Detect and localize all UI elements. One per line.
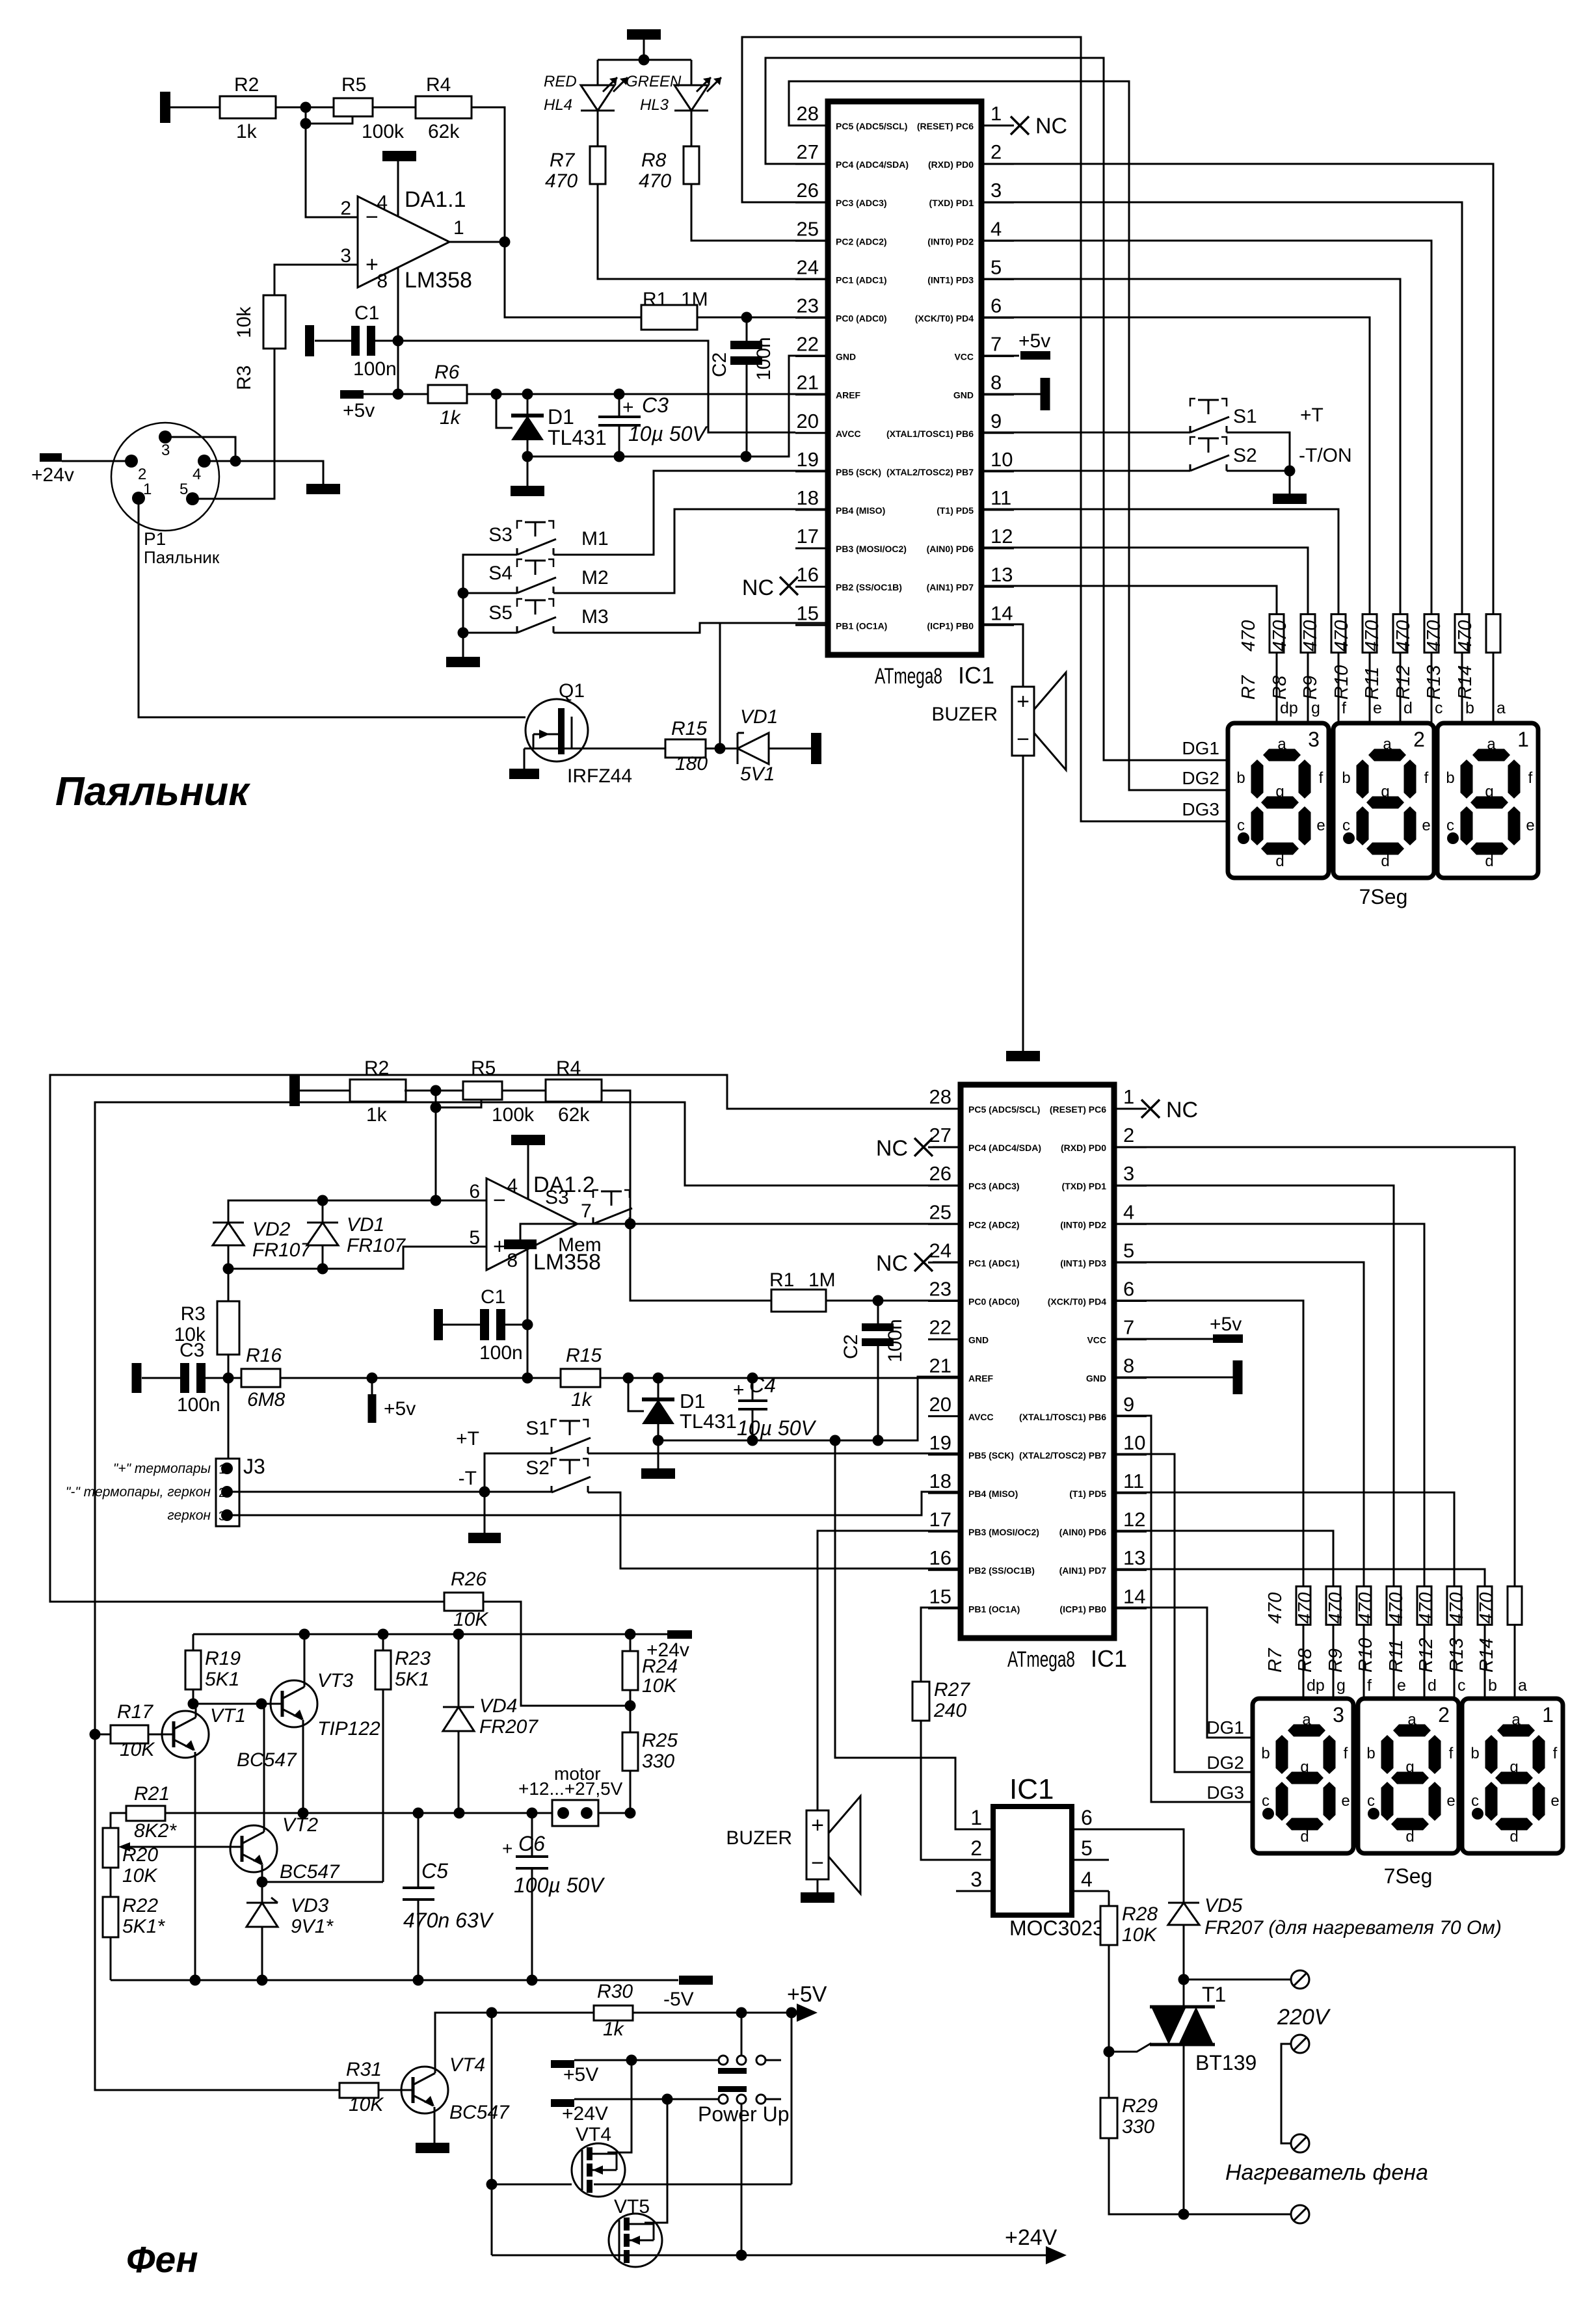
NC pin 1 (lower) — [1112, 1108, 1142, 1110]
svg-text:(ICP1) PB0: (ICP1) PB0 — [927, 620, 974, 631]
svg-text:R4: R4 — [556, 1057, 581, 1079]
resistor R31 10K — [339, 2083, 379, 2098]
svg-text:470: 470 — [1416, 1593, 1437, 1624]
svg-text:g: g — [1381, 783, 1389, 801]
wire VT3 collector to rail — [304, 1634, 306, 1687]
resistor R3 (lower) — [228, 1269, 230, 1301]
svg-text:470: 470 — [639, 170, 671, 192]
resistor R28 10K — [1100, 1906, 1117, 1945]
wire +24V to switch row2 — [574, 2099, 719, 2100]
svg-text:M2: M2 — [581, 567, 609, 589]
svg-text:VD4: VD4 — [479, 1695, 517, 1717]
7-segment display DG1 (top) — [1228, 723, 1329, 878]
svg-text:AVCC: AVCC — [836, 429, 861, 439]
resistor R2 (lower) — [350, 1079, 406, 1102]
+24v rail (lower left) — [193, 1634, 669, 1635]
wire buzzer to ground (lower) — [817, 1879, 819, 1892]
wire VT2 emitter to VD3/R23 — [261, 1865, 263, 1882]
IC1 ATmega8 (top) — [828, 101, 981, 655]
ground bar below buzzer (top) — [1006, 1051, 1040, 1061]
svg-text:(XTAL2/TOSC2) PB7: (XTAL2/TOSC2) PB7 — [886, 467, 974, 477]
svg-text:c: c — [1457, 1676, 1466, 1695]
svg-text:15: 15 — [929, 1585, 951, 1608]
svg-text:+: + — [502, 1838, 512, 1859]
svg-text:ATmega8: ATmega8 — [875, 664, 942, 689]
svg-text:b: b — [1465, 699, 1474, 717]
wire R9 to display (lower) — [1363, 1625, 1365, 1699]
svg-text:f: f — [1367, 1676, 1372, 1695]
svg-text:470: 470 — [1455, 620, 1476, 652]
svg-text:b: b — [1488, 1676, 1497, 1695]
svg-text:22: 22 — [797, 333, 819, 356]
wire D1 to ground bus — [527, 440, 529, 457]
svg-text:62k: 62k — [558, 1104, 590, 1126]
svg-text:3: 3 — [991, 179, 1002, 202]
resistor R11 470 (top segment) — [1393, 615, 1407, 653]
svg-text:1k: 1k — [603, 2019, 625, 2040]
svg-text:MOC3023: MOC3023 — [1009, 1916, 1104, 1940]
svg-text:PC1 (ADC1): PC1 (ADC1) — [968, 1258, 1020, 1268]
svg-text:4: 4 — [1081, 1868, 1093, 1891]
svg-text:470n 63V: 470n 63V — [403, 1909, 494, 1932]
svg-text:1k: 1k — [571, 1389, 593, 1410]
DA1.2 pin8 stem — [527, 1249, 529, 1378]
svg-text:d: d — [1485, 853, 1493, 870]
wire R3 to P1 pin 5 — [193, 349, 274, 499]
svg-text:11: 11 — [1123, 1470, 1144, 1492]
wire P1 pin 3 to node — [165, 437, 235, 461]
svg-text:28: 28 — [797, 102, 819, 125]
wire R30 to +5V arrow — [633, 2012, 811, 2014]
wire pin9 to S1 — [981, 432, 1190, 434]
svg-text:2: 2 — [219, 1486, 226, 1500]
wire R8 to pin 25 — [691, 184, 828, 241]
svg-text:10K: 10K — [1122, 1924, 1158, 1946]
svg-text:+24v: +24v — [31, 464, 74, 486]
trimmer R5 (top) — [334, 98, 373, 116]
wire pin13 to R13 (lower) — [1112, 1569, 1485, 1587]
svg-text:2: 2 — [991, 140, 1002, 163]
svg-text:18: 18 — [797, 486, 819, 509]
transistor Q1 IRFZ44 — [525, 699, 588, 761]
svg-text:7: 7 — [1123, 1316, 1134, 1339]
wire R11 to display — [1400, 653, 1402, 723]
svg-text:PC4 (ADC4/SDA): PC4 (ADC4/SDA) — [968, 1143, 1041, 1153]
svg-text:VCC: VCC — [954, 352, 974, 362]
svg-text:470: 470 — [1325, 1593, 1346, 1624]
svg-text:(T1) PD5: (T1) PD5 — [1069, 1489, 1106, 1499]
svg-text:4: 4 — [193, 466, 201, 483]
svg-text:C1: C1 — [481, 1286, 505, 1308]
wire pin4 to R11 (lower) — [1112, 1224, 1424, 1587]
svg-text:100µ 50V: 100µ 50V — [514, 1873, 605, 1897]
svg-text:D1: D1 — [548, 405, 574, 429]
svg-text:470: 470 — [1300, 620, 1321, 652]
svg-text:8: 8 — [991, 371, 1002, 394]
svg-text:7: 7 — [991, 333, 1002, 356]
svg-text:b: b — [1366, 1745, 1375, 1762]
svg-text:26: 26 — [797, 179, 819, 202]
svg-text:R6: R6 — [434, 362, 460, 383]
resistor R14 470 (lower segment) — [1508, 1587, 1522, 1625]
wire switches common to ground — [463, 555, 517, 657]
svg-text:R14: R14 — [1455, 665, 1476, 700]
svg-text:+5v: +5v — [1018, 330, 1050, 352]
svg-text:e: e — [1422, 817, 1430, 834]
svg-text:-T: -T — [459, 1468, 477, 1489]
svg-text:+: + — [622, 397, 634, 418]
wire diode bottoms to non-inverting input — [228, 1245, 230, 1269]
svg-text:12: 12 — [1123, 1508, 1145, 1531]
svg-text:R17: R17 — [117, 1701, 153, 1723]
resistor R4 (lower) — [546, 1079, 602, 1102]
svg-text:R29: R29 — [1122, 2095, 1158, 2117]
wire VT1 collector to R19 — [195, 1704, 197, 1717]
+5v stub (lower) — [371, 1378, 373, 1396]
svg-text:S2: S2 — [525, 1457, 550, 1479]
svg-text:f: f — [1344, 1745, 1348, 1762]
resistor R27 240 — [912, 1682, 929, 1721]
svg-text:BC547: BC547 — [449, 2102, 510, 2123]
wire — [300, 1090, 351, 1092]
svg-text:g: g — [1405, 1758, 1414, 1776]
zener VD1 5V1 — [737, 733, 739, 764]
svg-text:−: − — [493, 1188, 506, 1213]
svg-text:FR207: FR207 — [479, 1716, 539, 1738]
wire R1 to PC0 pin 23 — [826, 1300, 961, 1302]
wire pin12 to R8 — [981, 548, 1308, 615]
diode VD1 FR107 (lower) — [307, 1222, 338, 1224]
svg-text:2: 2 — [970, 1836, 982, 1860]
svg-text:M3: M3 — [581, 606, 609, 628]
resistor R7 470 (top segment) — [1270, 615, 1284, 653]
svg-text:d: d — [1275, 853, 1284, 870]
wire pin5 to R9 (lower) — [1112, 1262, 1364, 1587]
svg-text:R5: R5 — [471, 1057, 496, 1079]
svg-text:-5V: -5V — [663, 1989, 694, 2010]
svg-text:5: 5 — [1123, 1239, 1134, 1262]
svg-text:GREEN: GREEN — [626, 73, 682, 90]
+5v supply bar (top) — [340, 390, 364, 399]
svg-text:BUZER: BUZER — [726, 1827, 792, 1849]
svg-text:R14: R14 — [1476, 1638, 1497, 1673]
wire Mem switch to pin 25 — [630, 1223, 961, 1225]
resistor R15 (lower) — [561, 1369, 600, 1387]
svg-text:Паяльник: Паяльник — [55, 769, 250, 814]
svg-text:R27: R27 — [934, 1679, 970, 1701]
wire VT5 source +24V line — [492, 2255, 1054, 2257]
wire S1 left to ground node — [485, 1453, 552, 1533]
svg-text:(AIN0) PD6: (AIN0) PD6 — [927, 544, 974, 554]
wire pin2 to R14 segment a — [981, 164, 1493, 615]
svg-text:R8: R8 — [641, 150, 667, 171]
zener VD3 9V1* — [261, 1882, 263, 1903]
svg-text:PB3 (MOSI/OC2): PB3 (MOSI/OC2) — [968, 1527, 1039, 1537]
svg-text:3: 3 — [970, 1868, 982, 1891]
svg-text:+: + — [493, 1234, 506, 1259]
NC pin 24 (lower) — [933, 1262, 961, 1264]
svg-text:10K: 10K — [122, 1865, 158, 1887]
svg-text:(XTAL2/TOSC2) PB7: (XTAL2/TOSC2) PB7 — [1019, 1450, 1106, 1461]
power up switch row 1 — [719, 2056, 728, 2065]
svg-text:R24: R24 — [642, 1656, 678, 1677]
wire R2 to R5 with node — [405, 1090, 463, 1092]
connector P1 — [111, 423, 219, 531]
svg-text:M1: M1 — [581, 528, 609, 549]
wire S1/S2 to ground — [1227, 432, 1290, 494]
svg-text:C1: C1 — [354, 302, 379, 324]
wire +24v to P1 pin 2 — [62, 460, 131, 462]
wire pin4 to R12 segment c — [981, 241, 1431, 615]
buzzer BUZER (top) — [1012, 687, 1034, 756]
wire R10 to display — [1369, 653, 1371, 723]
svg-text:R13: R13 — [1446, 1638, 1467, 1673]
svg-text:f: f — [1528, 769, 1533, 787]
wire VD4 to motor line — [458, 1731, 460, 1813]
svg-text:100k: 100k — [492, 1104, 535, 1126]
svg-text:PC3 (ADC3): PC3 (ADC3) — [968, 1181, 1020, 1191]
svg-text:1: 1 — [1517, 728, 1529, 751]
ground bar near P1 — [306, 484, 340, 494]
+5v bar at pin7 (top) — [1020, 351, 1050, 360]
svg-text:8K2*: 8K2* — [134, 1820, 177, 1842]
wire R22 to bottom rail — [110, 1937, 112, 1980]
svg-text:VD2: VD2 — [252, 1219, 291, 1240]
wire +24V row to VT5 drain — [645, 2099, 667, 2223]
LED HL4 RED — [581, 85, 615, 86]
svg-text:DG2: DG2 — [1182, 768, 1219, 788]
wire buzzer to ground — [1022, 756, 1024, 1051]
svg-text:3: 3 — [161, 442, 170, 459]
svg-text:R10: R10 — [1355, 1638, 1376, 1673]
svg-text:e: e — [1373, 699, 1382, 717]
svg-text:f: f — [1449, 1745, 1454, 1762]
ground bar at Mem switch — [504, 1239, 537, 1249]
trimmer R5 (lower) — [463, 1081, 502, 1100]
svg-text:−: − — [366, 205, 379, 230]
wire R9 to display — [1338, 653, 1340, 723]
svg-text:геркон: геркон — [167, 1508, 211, 1523]
transistor VT1 BC547 — [162, 1711, 209, 1758]
ground bar under S3-S5 — [446, 657, 480, 667]
svg-text:d: d — [1428, 1676, 1437, 1695]
svg-text:DG2: DG2 — [1206, 1753, 1244, 1773]
svg-text:e: e — [1397, 1676, 1406, 1695]
ground bar above op-amp DA1.2 — [511, 1135, 545, 1145]
svg-text:PC5 (ADC5/SCL): PC5 (ADC5/SCL) — [836, 121, 907, 131]
svg-text:+T: +T — [1300, 404, 1323, 426]
wire R2 to R5 with node — [276, 107, 334, 109]
svg-text:11: 11 — [991, 486, 1011, 509]
wire R8 to display (lower) — [1333, 1625, 1335, 1699]
LED HL3 GREEN — [674, 85, 708, 86]
motor connector — [552, 1800, 598, 1826]
wire R15 to AREF pin 21 — [600, 1377, 961, 1379]
svg-text:R12: R12 — [1416, 1638, 1437, 1673]
svg-text:ATmega8: ATmega8 — [1007, 1647, 1075, 1672]
resistor R24 10K — [630, 1634, 632, 1651]
svg-text:DG3: DG3 — [1206, 1782, 1244, 1803]
svg-text:1: 1 — [1123, 1085, 1134, 1108]
op-amp DA1.2 — [486, 1178, 578, 1270]
wire pin3 to R13 segment b — [981, 202, 1462, 615]
switch S1 +T — [1190, 426, 1191, 432]
resistor R21 8K2* — [126, 1806, 165, 1821]
wire pin2 to R14 (lower) — [1112, 1147, 1515, 1587]
svg-text:24: 24 — [929, 1239, 951, 1262]
svg-text:8: 8 — [1123, 1355, 1134, 1377]
svg-text:8: 8 — [377, 271, 388, 292]
svg-text:(RESET) PC6: (RESET) PC6 — [1050, 1104, 1106, 1115]
wire MOC pin6 to VD5/T1 — [1109, 1829, 1184, 1903]
svg-text:R19: R19 — [205, 1648, 241, 1669]
transistor VT3 TIP122 — [271, 1680, 317, 1727]
wire VT3 emitter to R21 line — [302, 1720, 304, 1813]
svg-text:g: g — [1485, 783, 1493, 801]
svg-text:180: 180 — [675, 753, 708, 775]
wire R13 to display (lower) — [1484, 1625, 1486, 1699]
svg-text:g: g — [1300, 1758, 1309, 1776]
svg-text:PB5 (SCK): PB5 (SCK) — [968, 1450, 1014, 1461]
resistor R3 (top) — [263, 295, 286, 349]
7-segment display DG2 (lower) — [1358, 1699, 1459, 1853]
transistor VT4 mosfet — [572, 2143, 625, 2197]
svg-text:5K1: 5K1 — [395, 1669, 429, 1690]
svg-text:27: 27 — [797, 140, 819, 163]
svg-text:4: 4 — [991, 217, 1002, 240]
resistor R16 6M8 — [241, 1369, 280, 1387]
ground bar under S1/S2 (top) — [1273, 494, 1307, 504]
svg-text:NC: NC — [1035, 114, 1067, 139]
svg-text:(INT0) PD2: (INT0) PD2 — [927, 236, 974, 246]
resistor R17 10K — [95, 1734, 111, 1736]
svg-text:R15: R15 — [671, 718, 707, 739]
svg-text:R26: R26 — [451, 1569, 486, 1590]
wire pin7 VCC to +5v (lower) — [1112, 1338, 1214, 1340]
svg-text:TL431: TL431 — [680, 1410, 737, 1433]
svg-text:S1: S1 — [525, 1418, 550, 1439]
svg-text:6: 6 — [469, 1181, 480, 1202]
svg-text:(AIN1) PD7: (AIN1) PD7 — [927, 582, 974, 592]
wire S2 right to pin 16 — [588, 1492, 961, 1569]
svg-text:DG1: DG1 — [1206, 1717, 1244, 1738]
svg-text:6: 6 — [1081, 1806, 1093, 1829]
svg-text:PB2 (SS/OC1B): PB2 (SS/OC1B) — [968, 1565, 1035, 1576]
input terminal bar (top left) — [160, 92, 170, 123]
svg-text:470: 470 — [1295, 1593, 1316, 1624]
+24V terminal bar (power up) — [551, 2099, 574, 2107]
svg-text:PB4 (MISO): PB4 (MISO) — [968, 1489, 1018, 1499]
svg-text:R28: R28 — [1122, 1903, 1158, 1925]
svg-text:GND: GND — [968, 1335, 989, 1345]
svg-text:S5: S5 — [488, 602, 512, 624]
ground bus wire to GND pin 22 — [527, 356, 828, 457]
wire pin12 to R8 (lower) — [1112, 1531, 1333, 1587]
svg-text:+: + — [733, 1379, 745, 1401]
svg-text:dp: dp — [1280, 699, 1298, 717]
resistor R7 470 (lower segment) — [1296, 1587, 1310, 1625]
wire R7 to display (lower) — [1303, 1625, 1305, 1699]
svg-text:9: 9 — [1123, 1393, 1134, 1416]
svg-text:R10: R10 — [1331, 665, 1352, 700]
svg-text:NC: NC — [1166, 1098, 1198, 1122]
7-segment display DG1 (lower) — [1253, 1699, 1353, 1853]
svg-text:VD1: VD1 — [347, 1214, 384, 1236]
svg-text:7: 7 — [581, 1200, 592, 1222]
wire R4 feedback to op-amp output and R1 — [472, 107, 642, 317]
bottom -5V rail — [111, 1979, 678, 1981]
svg-text:d: d — [1403, 699, 1413, 717]
svg-text:PC4 (ADC4/SDA): PC4 (ADC4/SDA) — [836, 159, 909, 170]
svg-text:LM358: LM358 — [405, 268, 472, 293]
svg-text:25: 25 — [929, 1200, 951, 1223]
svg-text:4: 4 — [1123, 1200, 1134, 1223]
svg-text:a: a — [1496, 699, 1506, 717]
wire Q1 source to ground — [524, 748, 525, 769]
svg-text:2: 2 — [1413, 728, 1425, 751]
svg-text:HL3: HL3 — [640, 96, 669, 114]
wire R5 wiper (lower) — [436, 1091, 481, 1107]
svg-text:C3: C3 — [642, 393, 669, 417]
svg-text:VT4: VT4 — [449, 2054, 485, 2076]
svg-text:g: g — [1510, 1758, 1518, 1776]
svg-text:PC2 (ADC2): PC2 (ADC2) — [968, 1219, 1020, 1230]
wire R17 to VT1 base — [148, 1734, 174, 1736]
svg-text:10µ 50V: 10µ 50V — [737, 1416, 817, 1440]
svg-text:470: 470 — [1446, 1593, 1467, 1624]
wire Q1 drain to R15 — [524, 748, 665, 750]
svg-text:470: 470 — [545, 170, 578, 192]
svg-text:3: 3 — [219, 1509, 226, 1524]
svg-text:14: 14 — [1123, 1585, 1145, 1608]
resistor R7 LED (top) — [597, 111, 599, 146]
wire R14 to display — [1493, 653, 1495, 723]
svg-text:28: 28 — [929, 1085, 951, 1108]
svg-text:R2: R2 — [364, 1057, 389, 1079]
svg-text:9: 9 — [991, 410, 1002, 432]
svg-text:"-" термопары, геркон: "-" термопары, геркон — [66, 1485, 211, 1500]
svg-text:f: f — [1319, 769, 1323, 787]
svg-text:1: 1 — [143, 481, 152, 498]
svg-text:AREF: AREF — [836, 390, 861, 401]
svg-text:T1: T1 — [1202, 1983, 1226, 2006]
svg-text:PB5 (SCK): PB5 (SCK) — [836, 467, 881, 477]
resistor R14 470 (top segment) — [1486, 615, 1500, 653]
svg-text:DG3: DG3 — [1182, 799, 1219, 819]
-5V bar — [679, 1976, 713, 1985]
transistor VT5 mosfet — [609, 2214, 662, 2267]
svg-text:d: d — [1510, 1828, 1518, 1846]
wire M2 to pin 18 — [553, 509, 828, 593]
wire M3 to pin 15 net — [553, 623, 720, 633]
capacitor C1 (lower) — [443, 1324, 480, 1326]
wire R20 to R22 — [110, 1868, 112, 1897]
svg-text:DA1.1: DA1.1 — [405, 187, 466, 212]
wire R15 to VD1 — [706, 748, 743, 750]
svg-text:Фен: Фен — [126, 2239, 198, 2281]
svg-text:R25: R25 — [642, 1730, 678, 1751]
svg-text:10: 10 — [1123, 1431, 1145, 1454]
svg-text:TIP122: TIP122 — [317, 1718, 380, 1740]
svg-text:(T1) PD5: (T1) PD5 — [937, 505, 974, 516]
ground bar below D1 (lower) — [658, 1440, 659, 1468]
svg-text:5: 5 — [991, 256, 1002, 278]
resistor R1 1M (lower) — [771, 1290, 826, 1312]
svg-text:220V: 220V — [1277, 2005, 1331, 2030]
svg-text:26: 26 — [929, 1162, 951, 1185]
svg-text:R5: R5 — [341, 74, 366, 96]
svg-text:S2: S2 — [1233, 445, 1257, 466]
